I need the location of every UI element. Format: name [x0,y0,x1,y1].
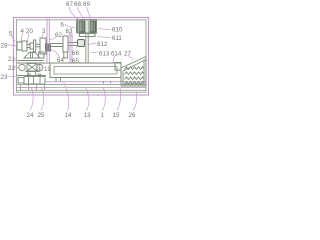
svg-text:611: 611 [112,35,122,42]
svg-text:612: 612 [97,41,108,48]
svg-text:5: 5 [9,31,13,38]
svg-text:15: 15 [113,112,120,119]
svg-text:64: 64 [57,57,64,64]
svg-text:67: 67 [66,1,73,8]
svg-text:21: 21 [8,56,15,63]
svg-text:13: 13 [84,112,91,119]
svg-text:4: 4 [21,28,25,35]
svg-text:1: 1 [101,112,105,119]
svg-text:24: 24 [27,112,34,119]
svg-text:20: 20 [26,28,33,35]
svg-text:62: 62 [55,32,62,39]
svg-text:65: 65 [72,58,79,65]
svg-text:6: 6 [61,22,65,29]
svg-text:614: 614 [111,51,122,58]
svg-text:25: 25 [38,112,45,119]
svg-text:28: 28 [1,43,8,50]
svg-text:3: 3 [42,28,46,35]
svg-text:26: 26 [129,112,136,119]
svg-text:63: 63 [66,28,73,35]
svg-text:23: 23 [1,74,8,81]
svg-text:19: 19 [44,66,51,73]
svg-text:66: 66 [72,50,79,57]
svg-text:22: 22 [8,65,15,72]
svg-text:14: 14 [65,112,72,119]
svg-text:610: 610 [112,27,123,34]
svg-text:27: 27 [124,51,131,58]
svg-text:613: 613 [99,51,110,58]
svg-text:68: 68 [74,1,81,8]
svg-text:69: 69 [83,1,90,8]
